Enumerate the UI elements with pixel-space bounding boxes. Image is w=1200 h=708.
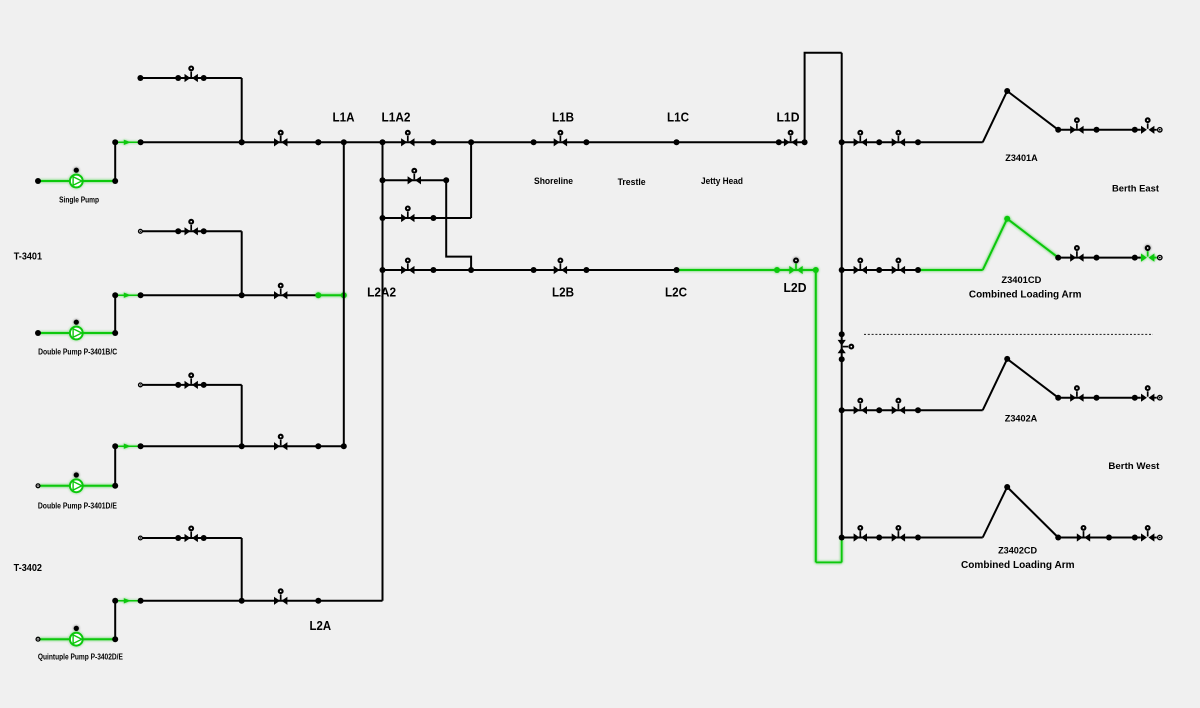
wire row B right section [1058,257,1141,259]
valve V-A3 [1070,118,1083,134]
valve V-X3 [401,207,414,223]
wire L1 riser up-and-over [805,53,842,143]
node bypass 3 left [175,382,181,388]
node row C n1 [876,407,882,413]
node L1 x805 [802,139,808,145]
valve BV1 bypass [185,67,198,83]
wire bypass group 3 drop [241,385,243,446]
node L1 x676 [674,139,680,145]
wire row C header-to-elbow [842,409,918,411]
svg-text:Z3401A: Z3401A [1005,153,1038,164]
wire riser x471 [470,142,472,218]
node row C n2 [915,407,921,413]
valve MV3 main [274,435,287,451]
node pump 2 start [35,330,41,336]
start marker pump 3 [36,484,40,488]
node L1 x241 [239,139,245,145]
dashed berth separator [864,333,1153,335]
flow arrow group 2 [115,293,140,298]
wire row D arm [983,487,1058,538]
flow arrow group 3 [115,444,140,449]
node row B peak [1004,216,1010,222]
node L2 x676 (L2C) [674,267,680,273]
node main 3 c [315,443,321,449]
wire row C right section [1058,397,1141,399]
node L1 x382 junction [380,139,386,145]
wire jetty header x842 [841,53,843,538]
node L2 x471 [468,267,474,273]
svg-text:Berth East: Berth East [1112,183,1160,194]
node L1 x534 [531,139,537,145]
valve BV2 bypass [185,220,198,236]
node main 2 junction [239,292,245,298]
node pump 1 out [112,178,118,184]
wire row D elbow segment [918,537,983,539]
wire L2 black [383,269,677,271]
node L1 x433 [430,139,436,145]
node main 2 b [138,292,144,298]
node row C header [839,407,845,413]
wire main group 2 [141,294,319,296]
valve V-D1 [854,526,867,542]
valve V-B4 (open) [1141,246,1154,262]
wire green drop x816 [815,270,817,562]
wire row B end stub [1153,257,1157,259]
wire bypass group 3 horizontal [140,384,241,386]
node row B n1 [876,267,882,273]
node L2 x433 [430,267,436,273]
start marker pump 4 [36,637,40,641]
pump P2 [70,320,83,340]
node row C peak [1004,356,1010,362]
wire row D right section [1058,537,1141,539]
valve V-C4 [1141,386,1154,402]
svg-text:L2A: L2A [310,619,332,633]
valve V-L1B [554,131,567,147]
valve V-L1A2 [401,131,414,147]
node main 4 b [138,598,144,604]
node L2 green x816 [813,267,819,273]
end marker row A [1158,128,1162,132]
wire row A header-to-elbow [842,141,918,143]
svg-text:Berth West: Berth West [1108,461,1160,472]
node pump 4 out [112,636,118,642]
flow arrow group 1 [115,140,140,145]
svg-text:L1C: L1C [667,110,689,124]
node L1 x471 [468,139,474,145]
valve V-X2 [408,169,421,185]
wire pump riser 4 [114,601,116,639]
wire bypass group 2 drop [241,231,243,295]
wire crossover row2 [383,179,447,181]
end marker row C [1158,396,1162,400]
valve V-D2 [892,526,905,542]
wire bypass group 4 drop [241,538,243,601]
wire row C elbow segment [918,409,983,411]
node row D peak [1004,484,1010,490]
valve V-HDR (vertical) [838,340,854,353]
node row A n1 [876,139,882,145]
node row A n4 [1094,127,1100,133]
node main 4 a [112,598,118,604]
svg-text:Single Pump: Single Pump [59,196,99,205]
svg-text:Z3402A: Z3402A [1005,414,1038,425]
node row B n3 [1055,255,1061,261]
wire pump row 2 [38,332,115,334]
node pump 1 start [35,178,41,184]
wire row A end stub [1153,129,1157,131]
node main 2 a [112,292,118,298]
valve V-A4 [1141,118,1154,134]
node row C n5 [1132,395,1138,401]
svg-text:Trestle: Trestle [618,177,646,188]
wire pump row 4 [38,638,115,640]
node row D header [839,535,845,541]
node row D n2 [915,535,921,541]
start marker bypass 3 [139,383,143,387]
node L1 x586 [583,139,589,145]
svg-text:L2D: L2D [784,281,807,295]
valve BV3 bypass [185,373,198,389]
node main 1 a [112,139,118,145]
node row B n2 [915,267,921,273]
node header y359 [839,356,845,362]
pump P3 [70,472,83,492]
svg-text:L2B: L2B [552,286,574,300]
pump P1 [70,168,83,188]
svg-text:Combined Loading Arm: Combined Loading Arm [961,560,1075,571]
node header y334 [839,331,845,337]
node row2 left [380,177,386,183]
end marker row D [1158,535,1162,539]
wire crossover row3 [383,217,472,219]
svg-text:Double Pump P-3401D/E: Double Pump P-3401D/E [38,501,118,510]
flow arrow group 4 [115,598,140,603]
valve MV4 main [274,589,287,605]
valve V-L2A2 [401,259,414,275]
node row D n3 [1055,535,1061,541]
node bypass 4 left [175,535,181,541]
node row A n5 [1132,127,1138,133]
wire L2 green [677,269,816,271]
node main 2 d [341,292,347,298]
node L2 x382 [380,267,386,273]
valve V-L2D (open) [789,259,802,275]
wire pump riser 2 [114,295,116,333]
svg-text:Jetty Head: Jetty Head [701,176,743,187]
wire bypass group 1 drop [241,78,243,142]
node row D n1 [876,535,882,541]
svg-text:Z3402CD: Z3402CD [998,546,1037,557]
svg-text:Quintuple Pump P-3402D/E: Quintuple Pump P-3402D/E [38,653,124,662]
wire row B header-to-elbow [842,269,918,271]
node row A n3 [1055,127,1061,133]
wire row A elbow segment [918,141,983,143]
valve V-D3 [1077,526,1090,542]
node row A header [839,139,845,145]
node bypass 2 right [201,228,207,234]
wire riser x382 (L1A2/L2A2 header) [382,142,384,601]
valve V-B3 [1070,246,1083,262]
valve V-C1 [854,399,867,415]
node bypass 1 right [201,75,207,81]
valve V-D4 [1141,526,1154,542]
node row2 right [443,177,449,183]
wire pump riser 1 [114,142,116,181]
start marker bypass 4 [139,536,143,540]
wire main group 4 [141,600,383,602]
node main 4 c [315,598,321,604]
wire pump riser 3 [114,446,116,486]
node bypass 3 right [201,382,207,388]
wire row A right section [1058,129,1141,131]
svg-text:L2C: L2C [665,286,687,300]
wire row B elbow segment [918,269,983,271]
svg-text:L1D: L1D [777,111,800,125]
valve V-C3 [1070,386,1083,402]
valve V-L1D [784,131,797,147]
node L2 green x777 [774,267,780,273]
node bypass 1 left [175,75,181,81]
svg-text:Combined Loading Arm: Combined Loading Arm [969,290,1082,301]
node row C n4 [1094,395,1100,401]
svg-text:L2A2: L2A2 [367,285,396,299]
node row A peak [1004,88,1010,94]
node main 3 a [112,443,118,449]
svg-text:Z3401CD: Z3401CD [1001,275,1041,286]
svg-text:L1A2: L1A2 [382,110,411,124]
node main 3 b [138,443,144,449]
node row3 mid [430,215,436,221]
node L1 x779 [776,139,782,145]
wire bypass group 4 horizontal [140,537,241,539]
valve V-A1 [854,131,867,147]
wire bypass group 2 horizontal [140,230,241,232]
wire L1 main [141,141,805,143]
node bypass 1 start [137,75,143,81]
node L1 x318 [315,139,321,145]
valve V-L1 supply [274,131,287,147]
node bypass 2 left [175,228,181,234]
wire green rise to Z3402CD [841,538,843,563]
node main 1 junction [239,139,245,145]
node main 4 junction [239,598,245,604]
node bypass 4 right [201,535,207,541]
wire row A arm [983,91,1058,142]
start marker bypass 2 [139,229,143,233]
wire main group 2 green segment [318,294,344,296]
node row D n5 [1132,535,1138,541]
wire green bottom [816,561,842,563]
node L2 x534 [531,267,537,273]
valve V-B1 [854,259,867,275]
wire riser x343 [343,142,345,446]
svg-text:T-3401: T-3401 [14,250,42,262]
wire bypass group 1 horizontal [140,77,241,79]
wire row D header-to-elbow [842,537,918,539]
wire main group 3 [141,445,344,447]
wire row C end stub [1153,397,1157,399]
node row B header [839,267,845,273]
node main 1 b [138,139,144,145]
node pump 3 out [112,483,118,489]
valve V-C2 [892,399,905,415]
svg-text:L1B: L1B [552,110,574,124]
svg-text:T-3402: T-3402 [14,562,42,574]
valve V-L2B [554,259,567,275]
wire row D end stub [1153,537,1157,539]
wire row B arm [983,219,1058,270]
wire row C arm [983,359,1058,410]
node row C n3 [1055,395,1061,401]
svg-text:Double Pump P-3401B/C: Double Pump P-3401B/C [38,348,117,357]
node main 2 c [315,292,321,298]
node main 1 c [315,139,321,145]
node main 3 end [341,443,347,449]
valve BV4 bypass [185,527,198,543]
svg-text:Shoreline: Shoreline [534,176,573,187]
wire pump row 1 [38,180,115,182]
node pump 2 out [112,330,118,336]
node main 3 junction [239,443,245,449]
pump P4 [70,626,83,646]
node row B n5 [1132,255,1138,261]
valve V-B2 [892,259,905,275]
node L2 x586 [583,267,589,273]
node row D n4 [1106,535,1112,541]
valve MV1 main [274,131,287,147]
node L1 x343 junction [341,139,347,145]
wire crossover row2 jog [446,180,471,270]
valve V-A2 [892,131,905,147]
valve MV2 main [274,284,287,300]
end marker row B [1158,255,1162,259]
node row3 left [380,215,386,221]
node row A n2 [915,139,921,145]
wire pump row 3 [38,485,115,487]
node row B n4 [1094,255,1100,261]
green highlight glow layer [38,140,1157,646]
svg-text:L1A: L1A [333,110,355,124]
